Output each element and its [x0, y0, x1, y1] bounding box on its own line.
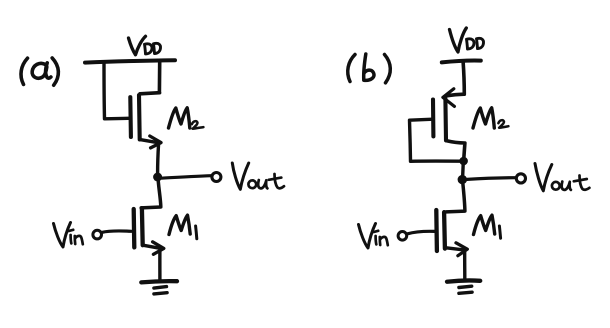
wire source to ground (a) [158, 251, 161, 280]
output node dot (b) [458, 175, 467, 184]
label Vin (a) [54, 223, 83, 248]
label VDD (b) [450, 28, 484, 52]
label VDD (a) [129, 36, 161, 55]
output terminal circle (a) [212, 173, 221, 182]
transistor M2 channel bar (b) [443, 99, 448, 141]
ground (a) [141, 281, 177, 294]
label Vout (a) [232, 163, 284, 189]
M1 source arrow (a) [153, 242, 164, 255]
Vin terminal circle (a) [93, 230, 102, 239]
M2 source arrow (a) [150, 136, 161, 148]
M1 source arrow (b) [456, 243, 467, 256]
wire gate-to-VDD (a) [104, 63, 129, 119]
VDD rail (a) [85, 60, 175, 62]
junction dot (b) [459, 157, 468, 166]
ground (b) [447, 280, 480, 293]
wire source to ground (b) [463, 252, 467, 279]
M2 source arrow (b) [443, 89, 455, 107]
M1 drain wire from output node (b) [446, 184, 465, 212]
label (a) [21, 58, 58, 85]
M2 source lead (a) [140, 140, 159, 143]
output wire (a) [161, 176, 211, 179]
label Vin (b) [359, 224, 388, 249]
M1 source lead (b) [445, 248, 465, 250]
transistor M2 gate bar (b) [431, 100, 435, 137]
transistor M2 channel bar (a) [137, 95, 142, 139]
wire source to node (a) [158, 144, 159, 174]
transistor M1 gate bar (b) [434, 210, 439, 251]
M1 drain wire from node (a) [141, 182, 161, 208]
output node dot (a) [153, 173, 162, 182]
VDD rail (b) [442, 61, 481, 63]
Vin wire (a) [102, 231, 132, 233]
label (b) [348, 54, 391, 83]
label M1 (a) [169, 215, 197, 239]
label M1 (b) [474, 215, 501, 238]
Vin terminal circle (b) [398, 232, 407, 241]
label Vout (b) [535, 164, 589, 191]
M2 source wire from rail (b) [446, 62, 464, 96]
M2 drain lead to rail (a) [140, 62, 160, 94]
Vin wire (b) [407, 231, 435, 234]
transistor M1 channel bar (b) [442, 212, 447, 248]
output wire (b) [467, 178, 516, 180]
transistor M1 channel bar (a) [140, 208, 145, 245]
wire junction to output node (b) [461, 164, 465, 176]
gate-to-drain wire (b) [410, 119, 462, 161]
output terminal circle (b) [516, 174, 525, 183]
M1 source lead (a) [143, 245, 162, 248]
label M2 (b) [473, 108, 508, 128]
M2 drain lead (b) [446, 141, 465, 157]
transistor M1 gate bar (a) [132, 209, 137, 247]
transistor M2 gate bar (a) [128, 97, 133, 137]
label M2 (a) [169, 108, 204, 129]
